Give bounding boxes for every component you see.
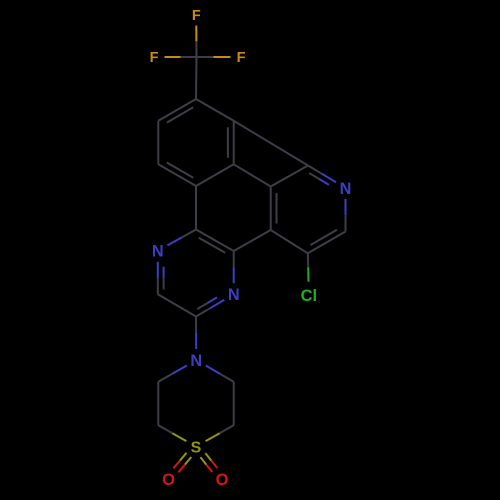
pyridine N-C bond right <box>345 199 347 232</box>
benzo ring bond C=C top-left <box>158 99 196 123</box>
pyridine C=C bond bottom <box>308 230 346 254</box>
svg-text:N: N <box>340 180 352 198</box>
svg-text:O: O <box>162 471 175 489</box>
benzo ring bond C=C bottom-left <box>158 163 196 187</box>
pyridine ring bond top-left <box>271 166 308 187</box>
svg-text:N: N <box>152 243 164 261</box>
svg-text:Cl: Cl <box>301 287 318 305</box>
central ring bond <box>234 164 271 186</box>
CF3 C-F right bond <box>197 56 231 58</box>
thiomorpholine C-C bond left <box>157 382 159 426</box>
thiomorpholine N-C bond left <box>158 366 187 382</box>
pyridine C=N bond <box>308 166 336 185</box>
pyrazine-thiomorpholine bond <box>195 317 197 350</box>
benzo ring bond left <box>157 121 159 165</box>
CF3 C-F left bond <box>165 56 197 58</box>
pyrazine N=C bond left <box>158 262 164 295</box>
svg-text:N: N <box>190 352 202 370</box>
C-Cl bond <box>307 253 310 281</box>
pyrazine C=C bond top <box>196 230 234 253</box>
pyrazine C=N bond bottom-right <box>196 297 224 316</box>
pyrazine C-N bond top-left <box>167 230 196 246</box>
svg-text:F: F <box>237 50 246 66</box>
benzo ring bond bottom-right <box>196 164 234 186</box>
thiomorpholine C-S bond left <box>158 425 186 441</box>
CF3 C-F top bond <box>195 26 197 58</box>
pyrazine N-C bond right <box>233 251 235 283</box>
pyridine C=C bond left <box>271 187 277 231</box>
sulfonyl S=O bond left <box>174 453 192 473</box>
benzo ring bond C=C right <box>228 121 234 165</box>
thiomorpholine C-N bond right <box>206 366 234 382</box>
svg-text:F: F <box>150 50 159 66</box>
svg-text:F: F <box>192 8 201 24</box>
pyrazine ring bond bottom-left <box>158 294 196 316</box>
thiomorpholine C-C bond right <box>233 382 235 426</box>
thiomorpholine S-C bond right <box>206 425 234 441</box>
biaryl link bond <box>234 230 271 251</box>
svg-text:N: N <box>228 286 240 304</box>
long strained bond <box>234 121 308 166</box>
pyridine ring bond bottom-left <box>271 230 308 253</box>
sulfonyl S=O bond right <box>200 453 217 472</box>
phenyl-CF3 bond <box>195 57 198 99</box>
central ring vertical bond <box>195 186 197 230</box>
benzo ring bond top-right <box>196 99 234 121</box>
svg-text:S: S <box>191 439 202 456</box>
svg-text:O: O <box>216 471 229 489</box>
